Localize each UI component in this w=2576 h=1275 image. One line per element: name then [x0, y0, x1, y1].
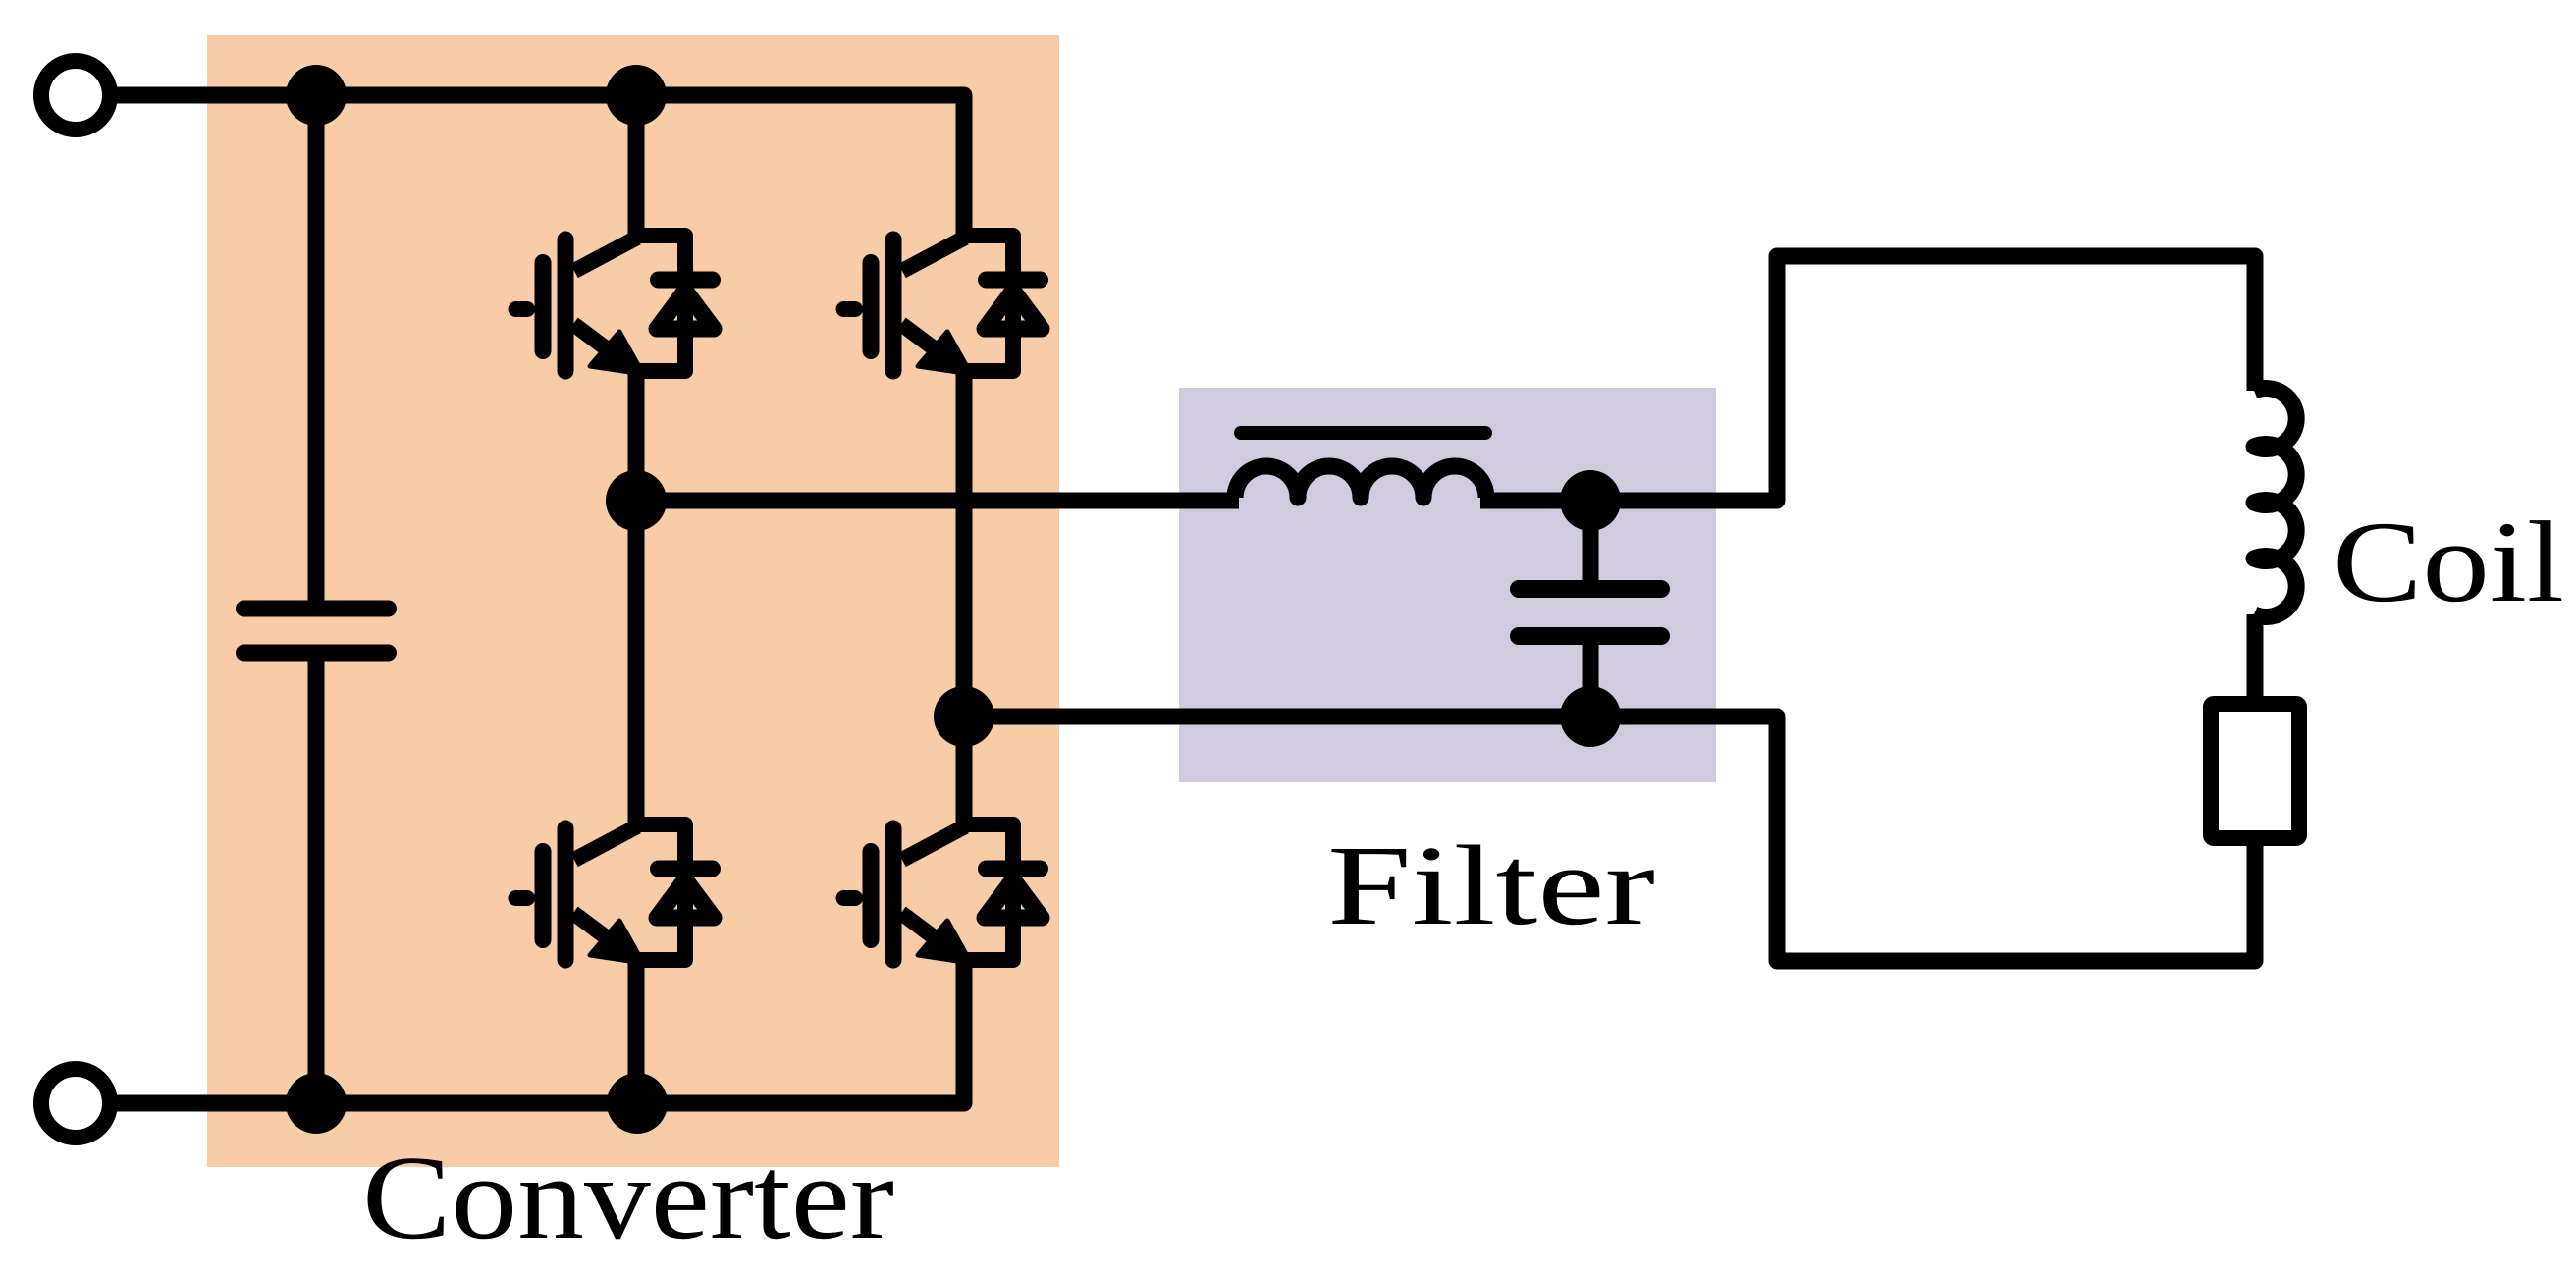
resistor R load	[2211, 704, 2299, 838]
inductor L1 winding	[1235, 466, 1486, 498]
node junction phase B	[934, 686, 994, 747]
capacitor C2 filter top plate	[1519, 580, 1661, 598]
converter highlight box	[207, 35, 1059, 1167]
node junction top mid	[606, 65, 667, 126]
transistor Q3	[516, 824, 715, 963]
inductor coil winding	[2254, 389, 2296, 617]
wire mid column J3-Q3	[628, 501, 645, 824]
capacitor C1 DC-link top plate	[244, 601, 389, 617]
node junction bottom mid	[607, 1073, 668, 1134]
transistor Q4	[844, 824, 1043, 963]
wire filter cap bottom leg	[1583, 645, 1599, 717]
wire inductor to load loop top	[1480, 256, 2255, 501]
transistor Q2	[844, 236, 1043, 374]
inductor L1 core bar	[1241, 426, 1485, 440]
wire top rail	[110, 95, 964, 236]
wire right column J4-Q4	[956, 717, 973, 824]
wire mid column Q1-J3	[628, 371, 645, 501]
terminal input bottom	[41, 1069, 110, 1138]
node junction phase A	[606, 470, 667, 531]
svg-text:Filter: Filter	[1327, 823, 1655, 949]
filter highlight box	[1179, 388, 1716, 782]
transistor Q1	[516, 236, 715, 374]
node junction top left	[286, 65, 347, 126]
node junction filter cap top	[1560, 470, 1621, 531]
wire right column Q4-bottom rail	[110, 960, 964, 1103]
capacitor C2 filter bottom plate	[1519, 627, 1661, 645]
wire left DC link drop lower	[308, 661, 325, 1103]
wire filter cap top leg	[1583, 501, 1599, 581]
wire mid column upper	[628, 95, 645, 236]
wire coil to resistor	[2247, 614, 2264, 704]
node junction filter cap bottom	[1560, 686, 1621, 747]
wire mid column Q3-bottom	[628, 960, 645, 1103]
svg-text:Converter: Converter	[362, 1132, 894, 1264]
capacitor C1 DC-link bottom plate	[244, 645, 389, 662]
wire resistor to loop bottom	[964, 717, 2255, 961]
node junction bottom left	[286, 1073, 347, 1134]
terminal input top	[41, 61, 110, 130]
svg-text:Coil: Coil	[2333, 498, 2564, 626]
wire phase A out	[636, 493, 1239, 509]
wire left DC link drop upper	[308, 95, 325, 601]
wire right column Q2-J4	[956, 371, 973, 717]
